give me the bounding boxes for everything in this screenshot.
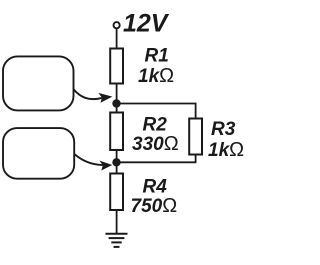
wire: R2 bottom to node B	[116, 150, 118, 174]
resistor R2	[110, 113, 123, 151]
svg-text:R3: R3	[211, 119, 236, 140]
node A junction dot	[112, 99, 120, 107]
wire: R1 bottom to node A	[116, 84, 118, 113]
wire: 12V terminal to R1 top	[116, 28, 118, 48]
svg-text:R1: R1	[145, 45, 169, 66]
arrow from callout 2 to node B	[74, 154, 103, 165]
node B junction dot	[112, 158, 120, 166]
wire: R4 bottom to ground	[116, 210, 118, 234]
terminal: +12V supply	[114, 22, 120, 28]
ground symbol	[106, 234, 128, 247]
svg-text:12V: 12V	[123, 9, 170, 37]
svg-text:1kΩ: 1kΩ	[138, 65, 174, 87]
svg-text:330Ω: 330Ω	[132, 133, 179, 155]
callout box 1 (empty note pointing to node A)	[3, 56, 74, 110]
svg-text:750Ω: 750Ω	[131, 195, 178, 217]
wire: R3 bottom to node B	[117, 155, 196, 163]
svg-text:1kΩ: 1kΩ	[208, 139, 244, 161]
resistor R3	[189, 119, 202, 155]
resistor R1	[110, 49, 123, 84]
wire: node A to right branch	[117, 104, 196, 119]
resistor R4	[110, 174, 123, 211]
callout box 2 (empty note pointing to node B)	[3, 128, 74, 179]
arrow from callout 1 to node A	[74, 89, 102, 99]
